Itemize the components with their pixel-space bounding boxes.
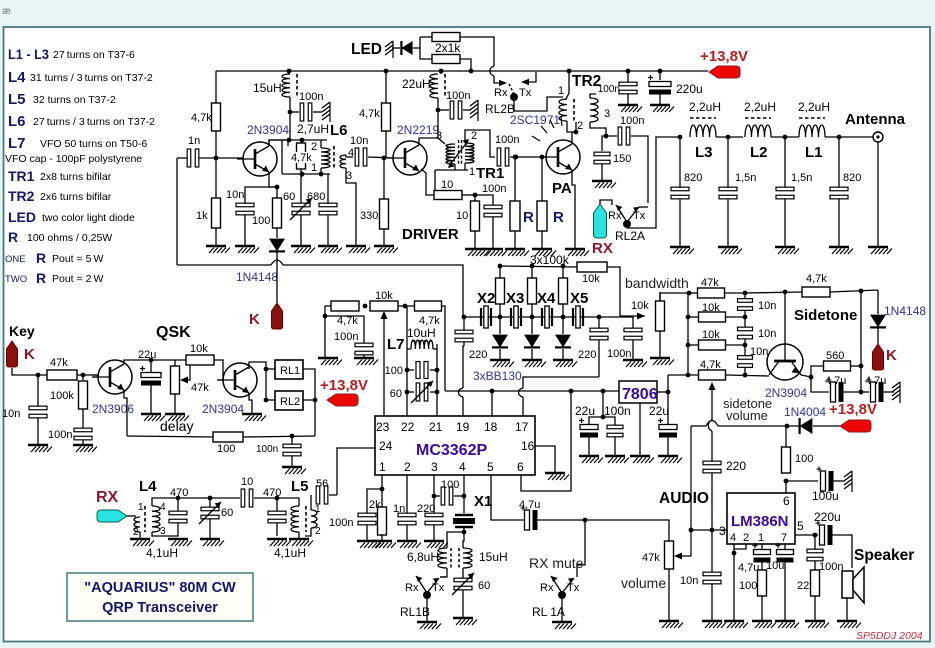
resistor 10 horizontal bbox=[434, 191, 462, 200]
potentiometer 47k delay bbox=[174, 360, 176, 366]
svg-text:470: 470 bbox=[263, 487, 281, 499]
varactor D4 bbox=[562, 317, 564, 334]
svg-text:L7: L7 bbox=[387, 336, 405, 353]
svg-text:+13,8V: +13,8V bbox=[320, 377, 368, 394]
svg-text:QRP Transceiver: QRP Transceiver bbox=[102, 600, 218, 616]
svg-text:Tx: Tx bbox=[633, 210, 646, 222]
svg-text:RX: RX bbox=[592, 240, 613, 257]
LED chassis hatch bbox=[385, 41, 393, 47]
svg-text:X5: X5 bbox=[570, 290, 588, 307]
resistor 10k sidetone #2 bbox=[699, 340, 726, 350]
capacitor 820 #2 bbox=[838, 137, 840, 187]
svg-text:R: R bbox=[523, 209, 534, 226]
svg-text:10k: 10k bbox=[190, 343, 208, 355]
svg-text:220: 220 bbox=[469, 349, 487, 361]
svg-text:2: 2 bbox=[133, 527, 139, 538]
capacitor 100u bbox=[786, 480, 818, 482]
pot top bbox=[660, 292, 689, 294]
wire 22u2 column bbox=[667, 375, 669, 425]
wire 2N3906 emitter down bbox=[124, 390, 127, 436]
svg-text:1: 1 bbox=[558, 85, 564, 97]
LED diode D1 bbox=[392, 47, 400, 49]
svg-text:22: 22 bbox=[401, 420, 415, 434]
cyan tag RX in bbox=[97, 510, 127, 522]
svg-text:22u: 22u bbox=[575, 404, 595, 418]
wire pin4 ground bbox=[733, 544, 735, 553]
capacitor 10n ladder #2 bbox=[738, 327, 753, 331]
svg-text:Speaker: Speaker bbox=[854, 547, 914, 564]
svg-text:470: 470 bbox=[170, 487, 188, 499]
svg-text:10k: 10k bbox=[375, 290, 393, 302]
wire 6V rail up to tune row bbox=[441, 306, 445, 391]
resistor 100 emitter bbox=[273, 198, 282, 228]
svg-text:100n: 100n bbox=[334, 331, 358, 343]
wire feedback from 1n down to key line bbox=[176, 158, 178, 265]
capacitor 10n ladder #1 bbox=[738, 299, 753, 303]
K tag key input bbox=[7, 341, 18, 367]
svg-text:+13,8V: +13,8V bbox=[829, 401, 877, 418]
svg-text:1k: 1k bbox=[196, 210, 208, 222]
svg-text:R: R bbox=[36, 250, 46, 266]
svg-text:100n: 100n bbox=[604, 404, 631, 418]
svg-text:4,7k: 4,7k bbox=[700, 359, 721, 371]
svg-text:3: 3 bbox=[346, 170, 352, 182]
resistor 4,7k tank bbox=[300, 140, 302, 143]
wire key to base line bbox=[12, 368, 98, 375]
svg-text:K: K bbox=[249, 311, 260, 328]
crystal X2 bbox=[480, 308, 482, 326]
resistor 2x1k upper bbox=[432, 33, 460, 42]
wire pin2 join bbox=[734, 544, 746, 549]
svg-text:6,8uH: 6,8uH bbox=[407, 550, 439, 564]
pot wiper sidetone volume bbox=[711, 388, 713, 420]
svg-text:10n: 10n bbox=[758, 300, 776, 312]
chassis hatch 100u bbox=[844, 471, 852, 477]
svg-text:RL 1A: RL 1A bbox=[532, 605, 565, 619]
wire TR2 pin2 to collector bbox=[567, 121, 576, 132]
wire L5 link bottom bbox=[305, 528, 311, 536]
wire L6 link lower to ground bbox=[346, 168, 356, 245]
svg-text:100: 100 bbox=[252, 215, 270, 227]
node rail junctions bbox=[287, 69, 292, 74]
wire switch common to TR2 pin1 bbox=[514, 97, 563, 111]
chassis hatch VFO bbox=[322, 102, 330, 108]
svg-text:X1: X1 bbox=[474, 493, 492, 510]
svg-text:L4: L4 bbox=[139, 478, 157, 495]
wire pin6 to 6V rail bbox=[521, 392, 571, 491]
svg-text:47k: 47k bbox=[191, 382, 209, 394]
wire VFO emitter bbox=[269, 172, 277, 187]
svg-text:220: 220 bbox=[578, 349, 596, 361]
stub bbox=[300, 174, 302, 203]
svg-text:2N3904: 2N3904 bbox=[202, 402, 244, 416]
capacitor 220u rail bbox=[659, 71, 661, 80]
wire pin4 bbox=[463, 475, 465, 513]
svg-text:1: 1 bbox=[138, 502, 144, 513]
svg-text:1n: 1n bbox=[188, 135, 200, 147]
resistor 4,7k sidetone top bbox=[802, 287, 830, 297]
crystal line bbox=[463, 316, 627, 318]
wire diode to K tag bbox=[276, 265, 278, 303]
svg-text:TR1: TR1 bbox=[476, 165, 504, 182]
svg-text:AUDIO: AUDIO bbox=[659, 490, 709, 507]
pot body bbox=[171, 366, 180, 394]
svg-text:L7: L7 bbox=[8, 135, 26, 152]
wire pin3 bbox=[433, 475, 435, 513]
wire pin16 bbox=[535, 446, 555, 472]
wire tank left bbox=[406, 306, 408, 416]
svg-text:47k: 47k bbox=[50, 357, 68, 369]
capacitor 220 filter in bbox=[463, 317, 465, 330]
svg-text:VFO 50 turns on T50-6: VFO 50 turns on T50-6 bbox=[40, 138, 147, 150]
svg-text:330: 330 bbox=[360, 210, 378, 222]
svg-text:LED: LED bbox=[351, 41, 382, 58]
wire driver emitter chain bbox=[421, 169, 434, 195]
resistor R bias 1 bbox=[514, 157, 516, 201]
svg-text:150: 150 bbox=[613, 153, 631, 165]
svg-text:100n: 100n bbox=[819, 561, 843, 573]
varactor D3 bbox=[531, 317, 533, 334]
svg-text:21: 21 bbox=[429, 420, 443, 434]
wire base driver bbox=[392, 157, 394, 159]
title box bbox=[67, 573, 253, 621]
svg-text:L3: L3 bbox=[695, 144, 713, 161]
22u bbox=[150, 360, 152, 372]
svg-text:10: 10 bbox=[456, 210, 468, 222]
svg-text:1,5n: 1,5n bbox=[791, 172, 812, 184]
resistor 10 vertical bbox=[474, 195, 476, 201]
capacitor 10n ladder #3 bbox=[738, 356, 753, 360]
switch RL2B wiper bbox=[509, 84, 514, 94]
svg-text:Antenna: Antenna bbox=[845, 111, 906, 128]
resistor 1k VFO bbox=[212, 198, 221, 228]
transformer TR2 primary bbox=[559, 99, 567, 121]
svg-text:100n: 100n bbox=[620, 115, 644, 127]
wire 2x1k lower to rail bbox=[460, 59, 471, 71]
wire Q6 emitter out bbox=[801, 375, 811, 377]
svg-text:10k: 10k bbox=[702, 329, 720, 341]
svg-text:10n: 10n bbox=[350, 135, 368, 147]
svg-text:10n: 10n bbox=[680, 575, 698, 587]
svg-text:4,7u: 4,7u bbox=[738, 562, 759, 574]
wire 13,8V audio rail bbox=[691, 425, 706, 427]
svg-text:R: R bbox=[8, 229, 18, 245]
wire L4 bottom bbox=[152, 530, 178, 536]
svg-text:10n: 10n bbox=[758, 328, 776, 340]
svg-text:delay: delay bbox=[160, 418, 193, 434]
wire hop audio rail bbox=[706, 421, 718, 427]
svg-text:2x8 turns bifilar: 2x8 turns bifilar bbox=[40, 171, 112, 183]
svg-text:2: 2 bbox=[743, 532, 749, 544]
svg-text:100n: 100n bbox=[48, 429, 72, 441]
wire RL1A common ground bbox=[561, 595, 563, 621]
svg-text:15uH: 15uH bbox=[253, 81, 282, 95]
svg-text:1: 1 bbox=[469, 166, 475, 178]
svg-text:4,1uH: 4,1uH bbox=[146, 546, 178, 560]
resistor 100k #1 bbox=[499, 266, 501, 278]
svg-text:100n: 100n bbox=[446, 90, 470, 102]
svg-text:60: 60 bbox=[390, 388, 402, 400]
switch RL2B Tx contact arrow bbox=[528, 72, 536, 82]
transformer TR1 tuning arrow bbox=[449, 141, 468, 166]
svg-text:1N4004: 1N4004 bbox=[784, 405, 826, 419]
svg-text:100u: 100u bbox=[812, 489, 839, 503]
svg-text:3: 3 bbox=[719, 524, 726, 538]
+13,8V tag top bbox=[709, 66, 740, 78]
svg-text:RX mute: RX mute bbox=[529, 555, 584, 571]
svg-text:4,1uH: 4,1uH bbox=[274, 546, 306, 560]
svg-text:560: 560 bbox=[826, 350, 844, 362]
svg-text:47k: 47k bbox=[701, 277, 719, 289]
svg-text:RL1B: RL1B bbox=[400, 605, 430, 619]
svg-text:2N3904: 2N3904 bbox=[247, 123, 289, 137]
svg-text:100 ohms / 0,25W: 100 ohms / 0,25W bbox=[27, 232, 112, 244]
wire VFO tank left bbox=[281, 140, 283, 174]
IC U2 LM386N bbox=[727, 493, 795, 544]
svg-text:Tx: Tx bbox=[519, 87, 532, 99]
svg-text:31 turns / 3 turns on T37-2: 31 turns / 3 turns on T37-2 bbox=[30, 72, 153, 84]
wire hop key line bbox=[271, 260, 283, 265]
svg-text:100n: 100n bbox=[299, 91, 323, 103]
wire sidetone collector line bbox=[745, 292, 802, 293]
svg-text:4,7k: 4,7k bbox=[337, 315, 358, 327]
svg-text:24: 24 bbox=[379, 439, 393, 453]
wire 2N3906 collector up bbox=[124, 360, 145, 364]
svg-text:SP5DDJ 2004: SP5DDJ 2004 bbox=[856, 630, 923, 642]
svg-text:L6: L6 bbox=[8, 113, 26, 130]
svg-text:3xBB130: 3xBB130 bbox=[473, 369, 522, 383]
wire pin24 bbox=[337, 448, 375, 495]
svg-text:2N2219: 2N2219 bbox=[397, 123, 439, 137]
wire 7806 out right bbox=[657, 391, 668, 393]
capacitor 10n audio in bbox=[711, 530, 713, 572]
wire key line horizontal bbox=[177, 264, 271, 266]
relay RL1 box bbox=[275, 360, 303, 379]
svg-text:L2: L2 bbox=[750, 144, 768, 161]
svg-text:L5: L5 bbox=[291, 478, 309, 495]
svg-text:10k: 10k bbox=[702, 302, 720, 314]
svg-text:23: 23 bbox=[376, 420, 390, 434]
svg-text:K: K bbox=[886, 347, 897, 364]
svg-text:bandwidth: bandwidth bbox=[625, 275, 689, 291]
svg-text:2x1k: 2x1k bbox=[435, 41, 461, 55]
cyan tag RX antenna bbox=[594, 204, 607, 238]
svg-text:L4: L4 bbox=[8, 69, 26, 86]
svg-text:10n: 10n bbox=[750, 346, 768, 358]
chassis hatch sidetone bbox=[892, 382, 900, 388]
svg-text:2k: 2k bbox=[369, 499, 381, 511]
svg-text:volume: volume bbox=[726, 408, 768, 423]
resistor 100k #3 bbox=[562, 266, 564, 278]
svg-text:1,5n: 1,5n bbox=[735, 172, 756, 184]
svg-text:100n: 100n bbox=[607, 348, 631, 360]
svg-text:Pout = 2 W: Pout = 2 W bbox=[52, 273, 104, 285]
wire pin17 up jog bbox=[522, 397, 524, 416]
svg-text:RL1: RL1 bbox=[280, 365, 300, 377]
wire pin6 supply bbox=[785, 481, 787, 493]
capacitor 1,5n #2 bbox=[784, 137, 786, 187]
svg-text:2: 2 bbox=[471, 130, 477, 142]
svg-text:100: 100 bbox=[795, 453, 813, 465]
wire VFO tank top bbox=[269, 140, 327, 146]
svg-text:4,7k: 4,7k bbox=[806, 273, 827, 285]
svg-text:2,7uH: 2,7uH bbox=[297, 122, 329, 136]
crystal X4 bbox=[541, 308, 543, 326]
svg-text:19: 19 bbox=[456, 420, 470, 434]
wire VFO collector node down bbox=[287, 140, 289, 146]
svg-text:10n: 10n bbox=[2, 408, 20, 420]
svg-text:two color light diode: two color light diode bbox=[42, 212, 135, 224]
svg-text:4,7k: 4,7k bbox=[291, 152, 312, 164]
resistor 4,7k sidetone bbox=[699, 370, 726, 380]
svg-text:2,2uH: 2,2uH bbox=[744, 100, 776, 114]
svg-text:L6: L6 bbox=[330, 122, 348, 139]
transformer L4 main bbox=[152, 506, 160, 532]
svg-text:RL2A: RL2A bbox=[615, 229, 645, 243]
svg-text:L5: L5 bbox=[8, 91, 26, 108]
svg-text:17: 17 bbox=[515, 420, 529, 434]
trimmer 60 RX bbox=[209, 498, 211, 507]
transistor Q4 2N3906 bbox=[98, 360, 132, 394]
resistor 47k sidetone bbox=[698, 288, 725, 298]
relay RL2 box bbox=[275, 391, 303, 410]
ground antenna bbox=[877, 142, 879, 246]
resistor 100k bbox=[81, 373, 86, 378]
svg-text:1: 1 bbox=[315, 504, 321, 515]
svg-text:100n: 100n bbox=[495, 134, 519, 146]
capacitor 100n pin1 bbox=[367, 489, 382, 513]
wire relays right common bbox=[303, 369, 315, 436]
svg-text:1n: 1n bbox=[393, 503, 405, 515]
K tag VFO bbox=[272, 303, 283, 329]
svg-text:Rx: Rx bbox=[405, 582, 419, 594]
svg-text:47k: 47k bbox=[642, 552, 660, 564]
svg-text:VFO cap - 100pF polystyrene: VFO cap - 100pF polystyrene bbox=[5, 153, 142, 165]
resistor 100 pin1 bbox=[758, 570, 767, 596]
svg-text:10: 10 bbox=[241, 476, 253, 488]
svg-text:60: 60 bbox=[221, 507, 233, 519]
+13,8V tag QSK bbox=[327, 394, 358, 406]
svg-text:100: 100 bbox=[217, 443, 235, 455]
svg-text:ONE: ONE bbox=[5, 254, 26, 265]
coil L6 link bbox=[340, 155, 346, 168]
capacitor 100n rail 1 bbox=[627, 71, 629, 82]
svg-text:7806: 7806 bbox=[622, 386, 658, 403]
svg-text:Pout = 5 W: Pout = 5 W bbox=[52, 253, 104, 265]
svg-text:10n: 10n bbox=[226, 189, 244, 201]
svg-text:MC3362P: MC3362P bbox=[416, 442, 487, 459]
capacitor 1n pin2 bbox=[398, 513, 416, 517]
svg-text:R: R bbox=[36, 270, 46, 286]
ground 10n bbox=[235, 245, 255, 247]
transistor Q3 PA 2SC1971 bbox=[546, 140, 580, 174]
wire TR1 pin2 to PA bbox=[465, 130, 495, 157]
svg-text:L1 - L3: L1 - L3 bbox=[8, 46, 49, 62]
resistor 10k delay bbox=[186, 355, 214, 365]
svg-text:15uH: 15uH bbox=[479, 550, 508, 564]
switch RL1A bbox=[551, 576, 562, 593]
wire RX mute branch bbox=[577, 520, 585, 577]
wire RL2A common to filter bbox=[627, 137, 680, 228]
svg-text:1: 1 bbox=[758, 532, 764, 544]
wire pin5 out bbox=[795, 534, 818, 536]
resistor 2k pin1 bbox=[378, 507, 387, 535]
wire tank right bbox=[436, 344, 438, 416]
wire TR1 bottoms bbox=[454, 164, 456, 170]
svg-text:Sidetone: Sidetone bbox=[794, 307, 857, 324]
speaker bbox=[842, 571, 853, 598]
resistor 4,7k driver bias bbox=[382, 103, 391, 131]
capacitor 1,5n #1 bbox=[727, 137, 729, 187]
wire speaker ground bbox=[846, 598, 848, 620]
svg-text:6: 6 bbox=[783, 494, 790, 508]
svg-text:1N4148: 1N4148 bbox=[236, 270, 278, 284]
svg-text:4,7u: 4,7u bbox=[519, 499, 540, 511]
capacitor 100n key filter bbox=[74, 428, 92, 432]
resistor 330 bbox=[380, 199, 389, 229]
fix bbox=[601, 164, 603, 180]
svg-text:16: 16 bbox=[521, 439, 535, 453]
wire TR2 sec top stub bbox=[590, 94, 596, 98]
svg-text:22: 22 bbox=[797, 580, 809, 592]
capacitor 680 bbox=[327, 174, 329, 203]
resistor 47k key bbox=[47, 370, 77, 380]
svg-text:3: 3 bbox=[431, 460, 438, 474]
svg-text:1: 1 bbox=[379, 460, 386, 474]
relay coil RL2B hatch bbox=[470, 100, 478, 106]
svg-text:4: 4 bbox=[730, 532, 736, 544]
wire PA base R bias bbox=[513, 155, 518, 160]
K tag sidetone bbox=[873, 344, 884, 370]
wire filter top line bbox=[178, 497, 240, 499]
wire pin5 audio out bbox=[491, 475, 526, 520]
svg-text:volume: volume bbox=[621, 575, 666, 591]
svg-text:Key: Key bbox=[9, 323, 35, 339]
wire pin2 bbox=[406, 475, 408, 513]
wire TR2 pin1 to rail bbox=[566, 71, 569, 99]
wire RX tag to Rx contact bbox=[600, 200, 612, 205]
wire RL1B common ground bbox=[426, 595, 428, 621]
svg-text:10: 10 bbox=[441, 179, 453, 191]
wire pin1 bbox=[381, 475, 383, 489]
svg-text:3: 3 bbox=[604, 108, 610, 120]
ground 7806 middle pin bbox=[639, 403, 641, 455]
wire LED to resistors bbox=[420, 37, 432, 59]
svg-text:2: 2 bbox=[404, 460, 411, 474]
svg-text:32 turns on T37-2: 32 turns on T37-2 bbox=[33, 94, 116, 106]
wire pin19 up jog bbox=[462, 397, 464, 416]
wire feed jog over rail bbox=[490, 66, 494, 76]
svg-text:Rx: Rx bbox=[494, 87, 508, 99]
wire 4,7k to base node bbox=[215, 131, 217, 158]
resistor 100 delay out bbox=[213, 432, 243, 442]
svg-text:1: 1 bbox=[311, 162, 317, 174]
svg-text:100n: 100n bbox=[256, 444, 278, 455]
svg-text:100k: 100k bbox=[50, 390, 74, 402]
svg-text:4: 4 bbox=[459, 460, 466, 474]
svg-text:Tx: Tx bbox=[432, 582, 445, 594]
svg-text:60: 60 bbox=[283, 191, 295, 203]
antenna connector bbox=[873, 132, 883, 142]
svg-text:K: K bbox=[24, 346, 35, 363]
resistor 22 zobel bbox=[811, 570, 820, 596]
svg-text:6: 6 bbox=[517, 460, 524, 474]
transformer TR2 secondary bbox=[590, 98, 598, 122]
capacitor 820 #1 bbox=[679, 137, 681, 187]
wire rail corner down to VFO bbox=[215, 71, 217, 103]
wire delay output line bbox=[127, 436, 214, 437]
wire PA collector to TR2 bbox=[572, 122, 576, 144]
